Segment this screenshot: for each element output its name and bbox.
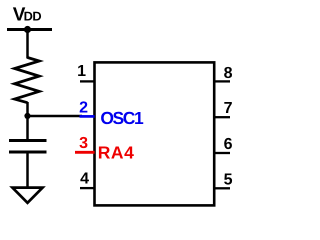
svg-text:DD: DD: [24, 9, 42, 24]
svg-text:7: 7: [224, 100, 233, 117]
pin 1 stub: [80, 80, 94, 82]
svg-text:3: 3: [79, 135, 88, 152]
svg-text:RA4: RA4: [98, 143, 135, 163]
wire capacitor to ground: [26, 152, 29, 188]
resistor R1: [15, 58, 40, 103]
svg-text:6: 6: [224, 136, 233, 153]
pin 2 stub (highlighted): [80, 115, 95, 118]
svg-text:8: 8: [224, 65, 233, 82]
power VDD label: [13, 5, 42, 26]
pin 7 stub: [215, 116, 231, 118]
pin 5 stub: [215, 187, 231, 189]
svg-text:5: 5: [224, 172, 233, 189]
ground symbol: [12, 188, 42, 203]
wire resistor bottom to junction: [26, 102, 29, 141]
pin 8 stub: [215, 80, 231, 82]
capacitor C1 top plate: [9, 139, 47, 142]
svg-text:4: 4: [80, 170, 89, 187]
pin 3 stub (highlighted): [75, 151, 95, 154]
svg-text:1: 1: [77, 63, 86, 80]
junction node dot: [24, 113, 30, 119]
svg-text:OSC1: OSC1: [100, 108, 144, 128]
wire junction to IC pin 2: [28, 115, 83, 117]
node dot on VDD rail: [24, 26, 31, 33]
pin 4 stub: [80, 187, 94, 189]
IC U1 body: [95, 62, 215, 205]
pin 6 stub: [215, 152, 231, 154]
capacitor C1 bottom plate: [9, 151, 47, 154]
svg-text:2: 2: [79, 99, 88, 116]
wire VDD rail to resistor top: [26, 30, 29, 59]
VDD power rail: [7, 28, 52, 31]
